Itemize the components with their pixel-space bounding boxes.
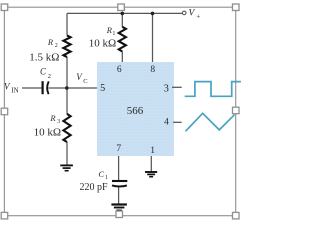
svg-text:+: +	[196, 13, 200, 21]
svg-text:V: V	[76, 72, 83, 82]
svg-text:1: 1	[105, 175, 108, 181]
svg-text:10 kΩ: 10 kΩ	[89, 38, 116, 50]
svg-text:2: 2	[48, 73, 51, 80]
svg-text:IN: IN	[11, 87, 18, 95]
svg-text:R: R	[49, 113, 56, 123]
svg-text:1.5 kΩ: 1.5 kΩ	[29, 52, 59, 64]
svg-text:C: C	[40, 66, 47, 76]
svg-text:5: 5	[100, 83, 105, 94]
svg-text:3: 3	[164, 83, 169, 94]
svg-text:C: C	[98, 169, 104, 179]
svg-text:1: 1	[150, 146, 155, 156]
svg-text:6: 6	[117, 65, 122, 75]
svg-text:C: C	[83, 78, 87, 85]
svg-text:7: 7	[116, 144, 121, 154]
svg-text:1: 1	[112, 31, 115, 37]
svg-text:V: V	[189, 8, 196, 18]
svg-text:2: 2	[55, 43, 58, 49]
svg-text:566: 566	[127, 105, 144, 117]
svg-text:V: V	[4, 81, 11, 91]
svg-text:10 kΩ: 10 kΩ	[34, 127, 61, 139]
svg-text:4: 4	[164, 118, 169, 128]
svg-text:8: 8	[150, 65, 155, 75]
svg-text:3: 3	[57, 119, 60, 125]
svg-text:220 pF: 220 pF	[80, 182, 109, 193]
svg-text:R: R	[47, 37, 54, 47]
